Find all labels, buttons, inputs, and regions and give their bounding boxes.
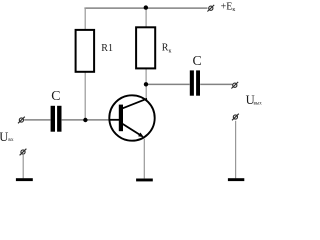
node dot on top rail bbox=[144, 5, 148, 9]
wire left drop from rail to R1 bbox=[84, 8, 86, 31]
terminal input lower bbox=[20, 149, 27, 156]
transistor base lead bbox=[109, 119, 119, 121]
capacitor C output plate 2 bbox=[196, 70, 200, 95]
wire rail node down to Rk top bbox=[145, 8, 147, 28]
wire emitter vertical to ground bbox=[143, 139, 145, 179]
transistor emitter lead bbox=[123, 124, 141, 136]
terminal output upper bbox=[231, 82, 238, 89]
svg-text:C: C bbox=[193, 53, 202, 68]
wire R1 bottom to input node bbox=[84, 72, 86, 121]
transistor VT1 circle bbox=[109, 95, 154, 140]
ground left bbox=[16, 178, 33, 181]
wire Rk bottom to output node bbox=[145, 68, 147, 84]
terminal output lower bbox=[232, 114, 239, 121]
node dot collector bbox=[144, 82, 148, 86]
terminal +Ek bbox=[207, 5, 214, 12]
wire lower-right terminal to ground bbox=[235, 121, 237, 179]
capacitor C input plate 2 bbox=[57, 106, 61, 132]
transistor base bar bbox=[119, 105, 123, 132]
wire input terminal to left capacitor bbox=[24, 119, 50, 121]
ground right bbox=[228, 178, 244, 181]
wire top rail bbox=[84, 7, 207, 9]
resistor R1 bbox=[76, 30, 95, 72]
transistor collector lead bbox=[123, 99, 147, 109]
node dot base bbox=[83, 118, 87, 122]
svg-text:R1: R1 bbox=[101, 43, 113, 54]
wire right capacitor to output terminal bbox=[200, 83, 232, 85]
resistor Rk bbox=[136, 27, 155, 68]
ground middle bbox=[136, 179, 153, 182]
transistor emitter arrowhead bbox=[138, 133, 144, 138]
capacitor C output plate 1 bbox=[190, 70, 194, 95]
wire left capacitor to base node and transistor bbox=[62, 119, 109, 121]
wire output node to right capacitor bbox=[146, 83, 190, 85]
capacitor C input plate 1 bbox=[51, 106, 55, 132]
svg-text:C: C bbox=[51, 88, 60, 103]
terminal input upper bbox=[18, 117, 25, 124]
wire collector vertical bbox=[145, 84, 147, 99]
wire lower-left terminal to ground bbox=[22, 155, 24, 178]
